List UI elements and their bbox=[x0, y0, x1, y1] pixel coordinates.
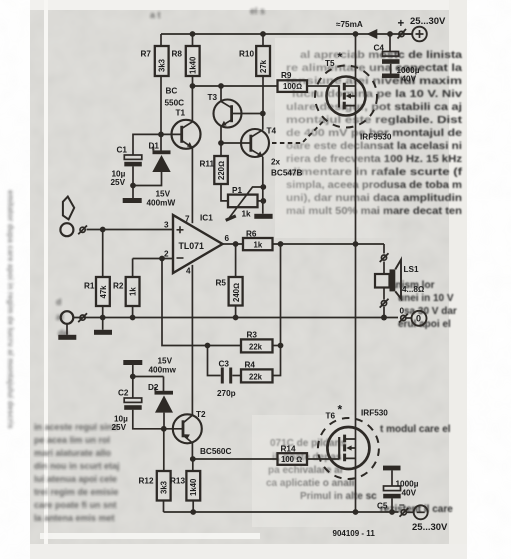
ground below C4 bbox=[382, 74, 400, 79]
svg-text:R8: R8 bbox=[172, 50, 183, 59]
ground below P1 bbox=[254, 214, 272, 219]
node top rail junction R8 bbox=[190, 31, 196, 37]
terminal +25...30V bbox=[404, 33, 412, 35]
node C5 bottom bbox=[389, 509, 395, 515]
wire feedback to output node bbox=[280, 244, 282, 346]
capacitor C2 bbox=[132, 377, 134, 399]
current arrow 75mA bbox=[367, 29, 378, 39]
wire main output vertical bbox=[355, 34, 357, 512]
node pin2 feedback bbox=[159, 256, 165, 262]
resistor R10 bbox=[262, 34, 264, 114]
svg-text:100 Ω: 100 Ω bbox=[281, 455, 302, 464]
wire base line left to C1 branch bbox=[133, 134, 161, 155]
wire 0V rail bbox=[73, 317, 398, 319]
resistor R13 bbox=[192, 459, 194, 471]
svg-text:–: – bbox=[399, 500, 405, 511]
svg-text:BC547B: BC547B bbox=[271, 169, 302, 178]
svg-text:0: 0 bbox=[400, 307, 405, 316]
svg-text:40V: 40V bbox=[402, 75, 417, 84]
node feedback left bbox=[205, 343, 211, 349]
resistor R6 bbox=[243, 238, 273, 250]
svg-text:C1: C1 bbox=[117, 146, 128, 155]
svg-text:400mW: 400mW bbox=[147, 199, 176, 208]
svg-text:d: d bbox=[56, 297, 62, 307]
wire T3 base to T4 collector node bbox=[232, 113, 263, 115]
svg-text:220Ω: 220Ω bbox=[217, 161, 226, 180]
svg-text:2x: 2x bbox=[271, 158, 281, 167]
ground below input 2 bbox=[66, 324, 68, 335]
svg-text:≈75mA: ≈75mA bbox=[336, 20, 363, 29]
resistor R5 bbox=[235, 244, 237, 277]
wire pin 6 output bbox=[223, 243, 244, 245]
node R6 right feedback bbox=[278, 241, 284, 247]
transistor T4 BC547B bbox=[241, 129, 269, 157]
svg-text:C4: C4 bbox=[374, 44, 385, 53]
resistor R8 bbox=[192, 34, 194, 86]
node R8 bottom bbox=[190, 83, 196, 89]
ground stub below R1 bbox=[102, 318, 104, 330]
svg-text:25...30V: 25...30V bbox=[410, 16, 446, 27]
svg-text:R10: R10 bbox=[239, 50, 254, 59]
svg-text:T4: T4 bbox=[267, 127, 277, 136]
svg-text:R3: R3 bbox=[247, 331, 258, 340]
svg-text:R4: R4 bbox=[245, 361, 256, 370]
node main line bottom bbox=[353, 509, 359, 515]
svg-text:unei in 10 V: unei in 10 V bbox=[398, 293, 454, 304]
ground below C1 bbox=[123, 198, 142, 203]
svg-text:7: 7 bbox=[185, 215, 190, 224]
capacitor C4 bbox=[389, 34, 391, 52]
node top rail junction C4 bbox=[387, 31, 393, 37]
wire T2 emitter to R14 bbox=[193, 458, 278, 460]
svg-text:T5: T5 bbox=[325, 59, 335, 68]
svg-text:6: 6 bbox=[225, 234, 230, 243]
svg-text:in aceste regul sino: in aceste regul sino bbox=[34, 422, 119, 432]
svg-text:2: 2 bbox=[164, 250, 169, 259]
resistor R3 bbox=[241, 339, 273, 352]
resistor R1 bbox=[102, 230, 104, 278]
ground above C2 bbox=[123, 360, 142, 365]
wire pin 7 from T1 emitter bbox=[191, 148, 193, 224]
svg-text:550C: 550C bbox=[165, 99, 185, 108]
svg-text:4...8Ω: 4...8Ω bbox=[402, 285, 424, 294]
svg-text:25V: 25V bbox=[111, 178, 126, 187]
svg-text:15V: 15V bbox=[158, 357, 173, 366]
svg-text:1k: 1k bbox=[254, 241, 263, 250]
wire R8 node to R9 row bbox=[193, 85, 278, 87]
node P1 wiper bbox=[260, 184, 266, 190]
svg-text:TL071: TL071 bbox=[179, 241, 205, 251]
svg-text:T1: T1 bbox=[176, 109, 186, 118]
svg-text:1k: 1k bbox=[242, 210, 252, 219]
svg-text:mari alaturate allo: mari alaturate allo bbox=[34, 448, 112, 458]
svg-text:270p: 270p bbox=[217, 389, 236, 398]
resistor R4 bbox=[241, 369, 273, 382]
svg-text:BC: BC bbox=[166, 87, 178, 96]
node R13 bottom bbox=[190, 509, 196, 515]
svg-text:el s: el s bbox=[250, 6, 265, 16]
svg-text:R9: R9 bbox=[281, 71, 292, 80]
svg-text:1k40: 1k40 bbox=[189, 478, 198, 496]
connector plug speaker bottom bbox=[381, 301, 386, 306]
connector plug speaker top bbox=[381, 255, 386, 260]
svg-text:IRF530: IRF530 bbox=[361, 409, 388, 418]
wire input to pin 3 bbox=[87, 229, 174, 231]
node output main line bbox=[353, 241, 359, 247]
node input R1 bbox=[100, 227, 106, 233]
svg-text:trei regim de emisie: trei regim de emisie bbox=[34, 487, 119, 497]
svg-text:C5: C5 bbox=[377, 502, 388, 511]
svg-text:100Ω: 100Ω bbox=[283, 82, 302, 91]
heatsink dashed circle T5 bbox=[315, 66, 377, 128]
wire T1 collector up to R8 node bbox=[191, 86, 193, 122]
node T2 base / D2 / R12 bbox=[161, 426, 167, 432]
svg-text:4: 4 bbox=[186, 267, 191, 276]
mosfet T6 IRF530 bbox=[327, 427, 369, 469]
wire top supply rail bbox=[161, 33, 412, 35]
input arrow symbol bbox=[63, 197, 74, 220]
node T2 emitter / R13 / R14 bbox=[190, 456, 196, 462]
mosfet T5 IRF9530 bbox=[327, 77, 366, 116]
heatsink dashed circle T6 bbox=[318, 418, 379, 479]
resistor R9 bbox=[278, 80, 308, 92]
loudspeaker LS1 bbox=[375, 274, 390, 288]
transistor T1 BC550C bbox=[161, 133, 181, 135]
svg-text:T3: T3 bbox=[208, 93, 218, 102]
capacitor C5 bbox=[391, 470, 393, 486]
feedback branch R3 R4 C3 bbox=[162, 259, 241, 346]
node P1 right lead bbox=[260, 198, 266, 204]
svg-text:*: * bbox=[338, 403, 343, 417]
node pin6 R5 bbox=[233, 241, 239, 247]
terminal 0 bbox=[401, 315, 406, 320]
svg-text:care poate fi un snt: care poate fi un snt bbox=[34, 500, 117, 510]
input terminal 2 bbox=[61, 311, 74, 324]
node R5 rail bbox=[233, 315, 239, 321]
svg-text:22k: 22k bbox=[249, 343, 263, 352]
resistor R12 bbox=[163, 429, 165, 471]
svg-text:P1: P1 bbox=[232, 186, 242, 195]
node speaker return bbox=[381, 315, 387, 321]
node T3 emitter / T4 base / R11 bbox=[218, 140, 224, 146]
transistor T3 BC547B bbox=[214, 100, 242, 128]
node top rail junction T5 drain line bbox=[353, 31, 359, 37]
svg-text:40V: 40V bbox=[402, 489, 417, 498]
svg-text:R14: R14 bbox=[281, 445, 296, 454]
ground above C5 bbox=[383, 466, 401, 471]
resistor R7 bbox=[160, 34, 162, 134]
resistor R14 bbox=[278, 453, 308, 465]
svg-text:BC560C: BC560C bbox=[200, 447, 231, 456]
svg-text:R13: R13 bbox=[170, 477, 185, 486]
svg-text:1k: 1k bbox=[129, 287, 138, 296]
svg-text:*: * bbox=[338, 50, 343, 64]
node top rail junction R10 bbox=[260, 31, 266, 37]
svg-text:15V: 15V bbox=[156, 190, 171, 199]
svg-text:D1: D1 bbox=[149, 142, 160, 151]
svg-text:pe acea lim un rol: pe acea lim un rol bbox=[34, 435, 110, 445]
wire bottom supply rail bbox=[164, 511, 399, 513]
svg-text:LS1: LS1 bbox=[404, 265, 419, 274]
capacitor C1 bbox=[124, 155, 142, 159]
svg-text:25V: 25V bbox=[112, 423, 127, 432]
svg-text:D2: D2 bbox=[148, 383, 159, 392]
svg-text:1000µ: 1000µ bbox=[396, 480, 419, 489]
svg-text:R5: R5 bbox=[216, 279, 227, 288]
transistor T2 BC560C bbox=[164, 428, 183, 430]
svg-text:la antena emis met: la antena emis met bbox=[34, 513, 115, 523]
svg-text:R1: R1 bbox=[84, 282, 95, 291]
wire pin 2 bbox=[133, 258, 173, 260]
connector plug + supply bbox=[399, 31, 404, 36]
svg-text:emitator dupa care apoi in reg: emitator dupa care apoi in regim de lucr… bbox=[6, 190, 15, 429]
resistor R2 bbox=[132, 259, 134, 278]
trimmer P1 bbox=[228, 195, 258, 208]
svg-text:R6: R6 bbox=[246, 230, 257, 239]
svg-text:3k3: 3k3 bbox=[158, 58, 167, 72]
dashed thermal link T4 to T5 bbox=[272, 120, 325, 144]
node D2 C2 top bbox=[130, 374, 136, 380]
terminal -25...30V bbox=[401, 510, 406, 515]
input terminal 1 bbox=[60, 223, 73, 236]
node feedback right bbox=[278, 343, 284, 349]
svg-text:IC1: IC1 bbox=[200, 214, 213, 223]
svg-text:27k: 27k bbox=[259, 59, 268, 73]
capacitor C3 bbox=[208, 346, 221, 376]
svg-text:a t: a t bbox=[150, 10, 161, 20]
svg-text:1k40: 1k40 bbox=[189, 56, 198, 74]
node R1 ground bbox=[100, 315, 106, 321]
svg-text:R12: R12 bbox=[139, 477, 154, 486]
speaker branch bbox=[383, 244, 385, 318]
node C1 bottom / D1 bbox=[130, 183, 136, 189]
svg-text:R11: R11 bbox=[200, 160, 215, 169]
svg-text:T2: T2 bbox=[196, 410, 206, 419]
svg-text:t modul care el: t modul care el bbox=[380, 424, 451, 435]
svg-text:R2: R2 bbox=[113, 282, 124, 291]
node R2 rail bbox=[130, 315, 136, 321]
node T3 collector bbox=[218, 83, 224, 89]
node T1 base / R7 bbox=[158, 132, 164, 138]
svg-text:T6: T6 bbox=[326, 412, 336, 421]
svg-text:904109 - 11: 904109 - 11 bbox=[333, 529, 376, 538]
svg-text:din nou in scurt etaj: din nou in scurt etaj bbox=[34, 461, 120, 471]
node T3 base / R10 / T4 collector bbox=[260, 111, 266, 117]
zener D1 15V 400mW bbox=[160, 134, 162, 151]
svg-text:3: 3 bbox=[164, 221, 169, 230]
svg-text:25...30V: 25...30V bbox=[412, 522, 448, 533]
wire pin 4 down to T2 bbox=[191, 265, 193, 415]
svg-text:3k3: 3k3 bbox=[160, 480, 169, 494]
svg-text:400mw: 400mw bbox=[149, 366, 177, 375]
svg-text:47k: 47k bbox=[99, 285, 108, 299]
svg-text:22k: 22k bbox=[249, 373, 263, 382]
svg-text:R7: R7 bbox=[141, 50, 152, 59]
svg-text:C2: C2 bbox=[118, 389, 129, 398]
svg-text:lui atenua apoi cele: lui atenua apoi cele bbox=[34, 474, 117, 484]
op-amp IC1 TL071 bbox=[173, 215, 223, 273]
svg-text:0: 0 bbox=[416, 314, 421, 324]
zener D2 15V 400mw bbox=[163, 377, 165, 392]
svg-text:+: + bbox=[398, 18, 405, 30]
svg-text:240Ω: 240Ω bbox=[232, 283, 241, 302]
svg-text:IRF9530: IRF9530 bbox=[360, 133, 392, 142]
resistor R11 bbox=[220, 143, 222, 156]
svg-text:C3: C3 bbox=[219, 360, 230, 369]
